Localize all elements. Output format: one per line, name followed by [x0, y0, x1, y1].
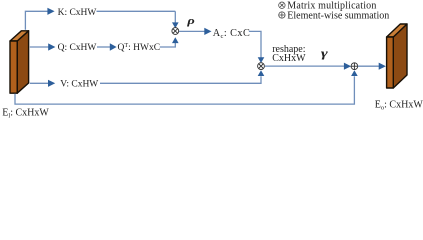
svg-text:V: CxHW: V: CxHW	[60, 79, 98, 89]
sum operator	[351, 63, 358, 70]
wire: V row	[30, 76, 261, 83]
wire: Ac down to matmul2	[249, 31, 261, 57]
svg-text:Ac: CxC: Ac: CxC	[213, 28, 251, 40]
svg-text:Element-wise summation: Element-wise summation	[287, 10, 389, 21]
legend sum symbol	[279, 12, 285, 18]
arrowhead into matmul1 bottom	[172, 37, 179, 43]
arrowhead Ac	[204, 28, 211, 35]
arrowhead into sum left	[344, 63, 351, 70]
legend matmul symbol	[279, 2, 285, 8]
wire: Q row	[30, 43, 176, 47]
svg-text:Q: CxHW: Q: CxHW	[58, 43, 97, 53]
output feature map box E_o	[387, 24, 407, 88]
svg-text:γ: γ	[321, 47, 329, 60]
wire: K riser and K row	[25, 11, 175, 30]
arrowhead into matmul1 top	[172, 22, 179, 28]
wire: sum to output box	[358, 65, 379, 67]
svg-text:El: CxHxW: El: CxHxW	[2, 107, 49, 119]
arrowhead K label	[47, 8, 54, 15]
matmul operator 2	[258, 63, 265, 70]
arrowhead into matmul2 top	[258, 57, 265, 63]
arrowhead Q to QT	[110, 43, 117, 51]
svg-text:CxHxW: CxHxW	[272, 53, 306, 64]
wire: matmul1 to Ac	[179, 30, 205, 32]
arrowhead into output box	[379, 63, 386, 70]
arrowhead into matmul2 bottom	[258, 70, 265, 76]
svg-text:K: CxHW: K: CxHW	[58, 8, 97, 18]
arrowhead Q label	[48, 43, 55, 50]
arrowhead V label	[48, 80, 55, 87]
wire: matmul2 to sum	[265, 65, 344, 67]
matmul operator 1	[172, 28, 179, 35]
input feature map box E_l	[10, 31, 29, 93]
wire: residual from input box bottom to sum	[15, 76, 354, 104]
svg-text:ρ: ρ	[186, 15, 195, 27]
arrowhead into sum bottom	[351, 70, 358, 76]
svg-text:QT: HWxC: QT: HWxC	[118, 42, 161, 53]
